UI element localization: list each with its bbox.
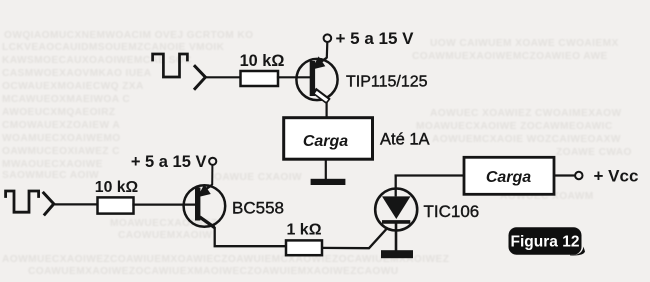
wire: load to ground (top) (325, 159, 327, 179)
transistor Q1 TIP115/125 (PNP) (296, 56, 337, 101)
svg-text:COAWUEMXAOIWEZOCAWIUEXMAOIWECZ: COAWUEMXAOIWEZOCAWIUEXMAOIWECZOAWUIEMXAO… (28, 266, 398, 277)
ground (top circuit) (311, 179, 346, 185)
wire: Q1 collector to load (326, 102, 328, 119)
svg-text:1 kΩ: 1 kΩ (286, 221, 321, 238)
wire: Q1 emitter to +V terminal (326, 43, 329, 59)
svg-text:Até 1A: Até 1A (380, 131, 430, 149)
svg-text:+ Vcc: + Vcc (594, 167, 639, 186)
figure label Figura 12 (509, 227, 586, 255)
pulse input symbol (top channel) (153, 54, 188, 77)
wire: top arrow to R1 (205, 76, 240, 78)
resistor R3 1 kOhm (286, 240, 322, 255)
svg-text:BC558: BC558 (232, 199, 284, 218)
svg-text:OAWUE CXAOIW: OAWUE CXAOIW (214, 172, 302, 183)
svg-text:OAWMUCEOXIAWEZ C: OAWMUCEOXIAWEZ C (2, 146, 120, 157)
svg-text:MOAWUECXAOIWE ZOCAWMEOAWIC: MOAWUECXAOIWE ZOCAWMEOAWIC (416, 121, 613, 132)
svg-text:WOAMUECXOAIWEMO: WOAMUECXOAIWEMO (2, 133, 121, 144)
wire: bottom arrow to R2 (54, 203, 98, 205)
pulse input symbol (bottom channel) (6, 191, 39, 212)
terminal +5 a 15 V (bottom) (209, 158, 216, 165)
svg-text:LCKVEAOCAUIDMSOUEMZCANOIE VMOI: LCKVEAOCAUIDMSOUEMZCANOIE VMOIK (2, 42, 225, 53)
svg-text:UOW CAIWUEM XOAWE CWOAIEMX: UOW CAIWUEM XOAWE CWOAIEMX (430, 38, 619, 49)
SCR TIC106 (375, 189, 417, 231)
terminal +5 a 15 V (top) (324, 34, 332, 42)
svg-text:+ 5 a 15 V: + 5 a 15 V (131, 153, 207, 171)
input arrow (top channel) (195, 66, 205, 88)
wire: SCR cathode to ground (395, 224, 398, 251)
svg-text:TIC106: TIC106 (424, 202, 480, 221)
svg-text:CMOWAUEXZOAIEW A: CMOWAUEXZOAIEW A (2, 120, 120, 131)
svg-text:Carga: Carga (303, 133, 348, 150)
svg-text:AOWUEC XOAWIEZ CWOAIMEXAOW: AOWUEC XOAWIEZ CWOAIMEXAOW (430, 108, 622, 119)
wire: bottom terminal to Q2 emitter (211, 165, 213, 185)
svg-text:MCAWUEOXMAEIWOA C: MCAWUEOXMAEIWOA C (2, 94, 130, 105)
load box Carga (right) (464, 157, 554, 194)
svg-text:Figura 12: Figura 12 (511, 234, 580, 251)
svg-text:CAOWUEMXAOIW: CAOWUEMXAOIW (118, 230, 212, 241)
svg-text:+ 5 a 15 V: + 5 a 15 V (336, 29, 415, 48)
resistor R1 10 kOhm (241, 71, 279, 86)
terminal +Vcc (575, 172, 582, 179)
svg-text:ZOAWE CWAO: ZOAWE CWAO (556, 147, 632, 158)
ground (SCR circuit) (381, 250, 413, 258)
svg-text:SAOWMUEC AOIW: SAOWMUEC AOIW (2, 170, 99, 181)
resistor R2 10 kOhm (98, 197, 134, 213)
wire: load to +Vcc terminal (554, 174, 575, 176)
wire: anode node to load (right) (395, 174, 465, 176)
transistor Q2 BC558 (PNP) (184, 184, 226, 227)
svg-text:Carga: Carga (486, 169, 531, 186)
svg-text:MWAOUECXAOIWE: MWAOUECXAOIWE (2, 159, 103, 170)
svg-text:TIP115/125: TIP115/125 (346, 74, 428, 91)
svg-text:10 kΩ: 10 kΩ (240, 52, 285, 70)
svg-text:10 kΩ: 10 kΩ (95, 179, 139, 196)
wire: SCR anode up (395, 176, 397, 197)
svg-text:OWQIAOMUCXNEMWOACIM OVEJ GCRTO: OWQIAOMUCXNEMWOACIM OVEJ GCRTOM KO (4, 30, 253, 41)
svg-text:COAWMUEXAOIWEMCZOAWIEO AWE: COAWMUEXAOIWEMCZOAWIEO AWE (412, 51, 608, 62)
svg-text:AWOEUCXMQAEOIRZ: AWOEUCXMQAEOIRZ (2, 107, 116, 118)
wire: R2 to Q2 base (134, 204, 198, 206)
load box Carga (top) (284, 118, 373, 160)
svg-text:CASMWOEXAOVMKAO IUEA: CASMWOEXAOVMKAO IUEA (2, 68, 152, 79)
wire: R3 to SCR gate (322, 228, 388, 249)
svg-text:AOWUEMCXAOIE WOZCAIWEOAXW: AOWUEMCXAOIE WOZCAIWEOAXW (432, 134, 621, 145)
wire: Q2 collector down and right to R3 (215, 227, 286, 246)
svg-text:OCWAUEXMOAIECWQ ZXA: OCWAUEXMOAIECWQ ZXA (2, 81, 144, 92)
input arrow (bottom channel) (44, 193, 54, 214)
wire: R1 to Q1 base (278, 76, 310, 78)
